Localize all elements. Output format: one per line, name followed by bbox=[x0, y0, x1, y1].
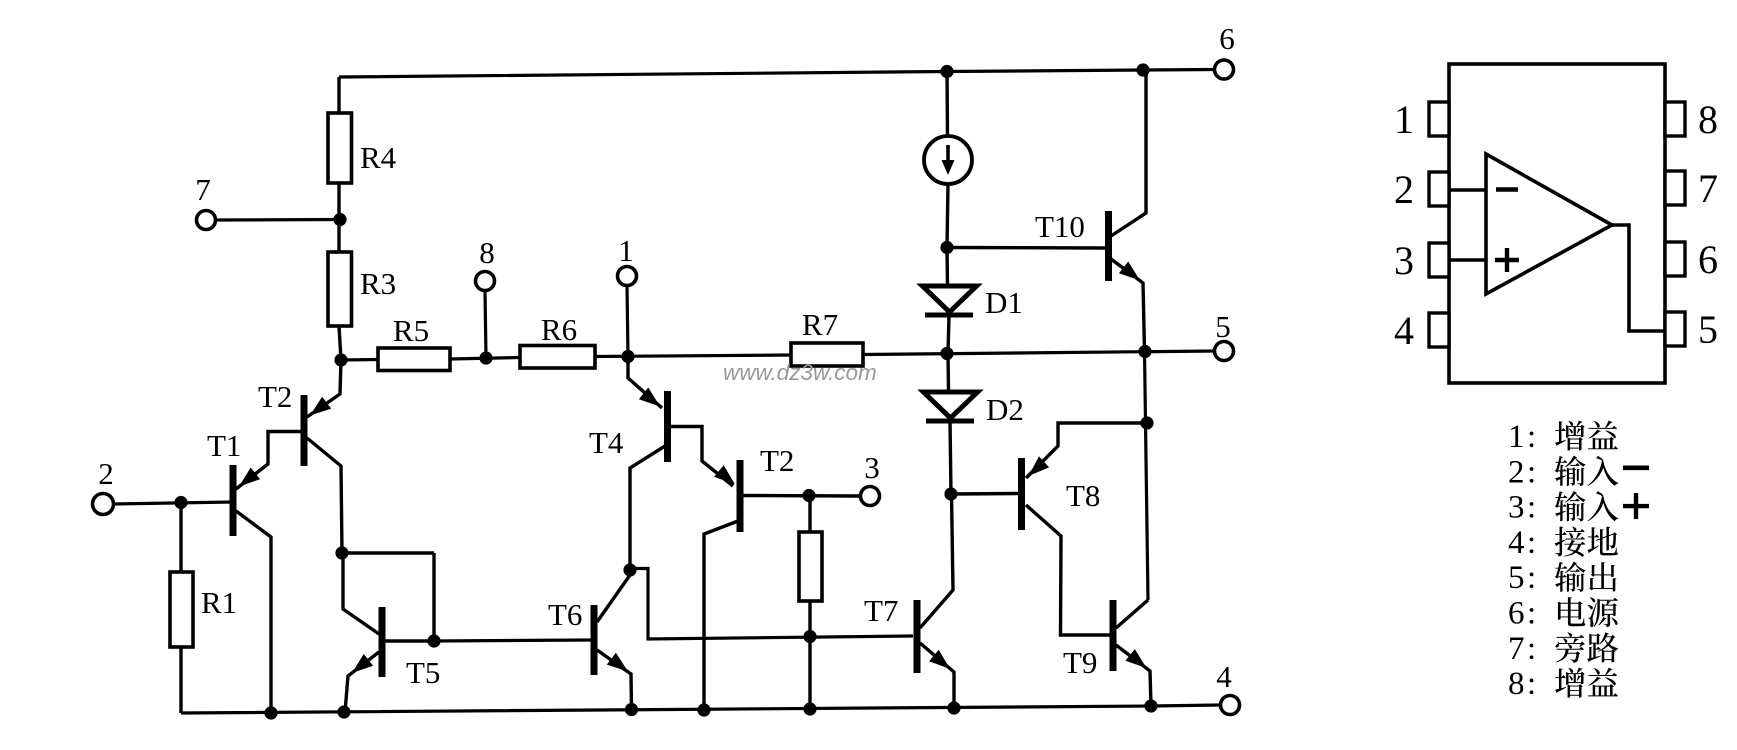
arrow T1 emitter bbox=[239, 468, 260, 487]
arrow T7 emitter bbox=[929, 650, 950, 669]
svg-text:D1: D1 bbox=[985, 285, 1023, 320]
transistor T1 bbox=[233, 432, 301, 714]
svg-text:3: 3 bbox=[1394, 238, 1414, 283]
arrow T4 emitter bbox=[639, 388, 660, 407]
wire pin 7 to node bbox=[216, 218, 339, 222]
transistor T4 bbox=[628, 357, 733, 570]
arrow T6 emitter bbox=[607, 653, 628, 672]
transistor T10 bbox=[947, 70, 1146, 351]
pin stub 8 (right) bbox=[1665, 102, 1685, 136]
terminal pin 5 bbox=[1215, 342, 1234, 361]
resistor R7 bbox=[791, 343, 863, 366]
junction node R4/R3/pin7 bbox=[333, 213, 346, 226]
junction node T5 base/T6 bbox=[427, 634, 440, 647]
transistor T2 (driver) bbox=[704, 460, 860, 710]
svg-text:T4: T4 bbox=[589, 425, 624, 460]
svg-text:R6: R6 bbox=[541, 312, 577, 347]
junction node pin8/R5/R6 bbox=[479, 351, 492, 364]
svg-text::: : bbox=[1527, 490, 1536, 526]
arrow T5 emitter bbox=[352, 654, 373, 673]
svg-text::: : bbox=[1527, 596, 1536, 632]
svg-text::: : bbox=[1527, 631, 1536, 667]
svg-text:T2: T2 bbox=[258, 379, 292, 414]
svg-text:2: 2 bbox=[98, 456, 114, 491]
wire pin 2 to T1 base bbox=[114, 502, 233, 504]
svg-text:R7: R7 bbox=[802, 307, 838, 342]
svg-text:R3: R3 bbox=[360, 266, 396, 301]
IC package DIP-8 outline bbox=[1449, 64, 1665, 383]
svg-text::: : bbox=[1527, 454, 1536, 490]
svg-text:T1: T1 bbox=[207, 428, 241, 463]
junction node pin1/R6/R7/T4 bbox=[621, 350, 634, 363]
terminal pin 1 bbox=[618, 267, 637, 286]
op-amp triangle bbox=[1486, 154, 1612, 294]
arrow T2 driver emitter bbox=[714, 465, 735, 484]
transistor T5 bbox=[342, 553, 434, 712]
wire top supply rail to pin 6 bbox=[339, 70, 1215, 78]
wire R7 to pin 5 bbox=[863, 351, 1215, 355]
wire bottom ground rail to pin 4 bbox=[181, 705, 1220, 713]
resistor R2 bbox=[799, 496, 822, 709]
legend line pin 6 bbox=[1508, 596, 1618, 632]
junction node T10/pin5 bbox=[1138, 345, 1151, 358]
terminal pin 3 bbox=[861, 487, 880, 506]
transistor T8 bbox=[951, 423, 1147, 635]
legend line pin 5 bbox=[1508, 560, 1616, 596]
legend line pin 1 bbox=[1508, 419, 1618, 455]
junction node pin2/R1/T1 bbox=[174, 496, 187, 509]
diode D1 bbox=[923, 247, 977, 353]
terminal pin 8 bbox=[476, 272, 495, 291]
svg-text:T6: T6 bbox=[548, 597, 582, 632]
svg-text:1: 1 bbox=[1394, 97, 1414, 142]
svg-text:1: 1 bbox=[1508, 419, 1525, 455]
wire non-inverting input bbox=[1449, 258, 1486, 261]
svg-text:R1: R1 bbox=[201, 585, 237, 620]
resistor R6 bbox=[520, 346, 595, 369]
junction node R2/ground rail bbox=[803, 702, 816, 715]
junction node T7 emitter/rail bbox=[947, 701, 960, 714]
svg-text:T8: T8 bbox=[1066, 478, 1100, 513]
legend line pin 2 bbox=[1508, 454, 1649, 490]
pin stub 7 (right) bbox=[1665, 171, 1685, 205]
pin stub 3 (left) bbox=[1429, 243, 1449, 277]
junction node CS/D1/T10 base bbox=[940, 241, 953, 254]
svg-text:8: 8 bbox=[479, 235, 495, 270]
terminal pin 2 bbox=[93, 494, 114, 515]
pin stub 6 (right) bbox=[1665, 242, 1685, 276]
svg-text:5: 5 bbox=[1508, 560, 1525, 596]
legend line pin 3 bbox=[1508, 490, 1649, 526]
arrow T9 emitter bbox=[1125, 649, 1146, 668]
svg-text:2: 2 bbox=[1508, 454, 1525, 490]
svg-text::: : bbox=[1527, 525, 1536, 561]
junction node T8/T9/pin5 line bbox=[1140, 416, 1153, 429]
svg-text:7: 7 bbox=[195, 172, 211, 207]
junction node R3/R5/T2 bbox=[334, 353, 347, 366]
resistor R1 bbox=[170, 503, 193, 713]
transistor T6 bbox=[594, 575, 632, 709]
diode D2 bbox=[924, 353, 978, 494]
wire node to R5 bbox=[341, 358, 378, 362]
svg-text:T10: T10 bbox=[1035, 209, 1085, 244]
junction node T4 collector/T6 bbox=[623, 563, 636, 576]
svg-text:T2: T2 bbox=[760, 443, 794, 478]
junction node T6 emitter/rail bbox=[625, 703, 638, 716]
wire R5 to R6 with node bbox=[450, 358, 520, 360]
svg-text:T9: T9 bbox=[1063, 645, 1097, 680]
legend line pin 4 bbox=[1508, 525, 1618, 561]
junction node D2/T7/T8 bbox=[944, 487, 957, 500]
svg-text:6: 6 bbox=[1698, 237, 1718, 282]
svg-text:7: 7 bbox=[1508, 631, 1525, 667]
wire pin 1 down to node bbox=[627, 286, 628, 357]
terminal pin 7 bbox=[197, 211, 216, 230]
svg-text:8: 8 bbox=[1508, 666, 1525, 702]
junction node T9 emitter/rail bbox=[1144, 699, 1157, 712]
plus sign bbox=[1495, 248, 1519, 272]
junction node T1 collector/rail bbox=[264, 706, 277, 719]
svg-text:8: 8 bbox=[1698, 97, 1718, 142]
svg-text:1: 1 bbox=[618, 233, 634, 268]
wire pin 8 down to node bbox=[485, 291, 486, 358]
wire R6 to R7 with node bbox=[595, 355, 791, 357]
resistor R4 bbox=[328, 77, 352, 220]
svg-text:T5: T5 bbox=[406, 655, 440, 690]
svg-text:3: 3 bbox=[864, 450, 880, 485]
svg-text:5: 5 bbox=[1698, 307, 1718, 352]
svg-text:4: 4 bbox=[1216, 659, 1232, 694]
transistor T7 bbox=[917, 494, 954, 708]
svg-text:R4: R4 bbox=[360, 140, 397, 175]
junction node pin3/R2 bbox=[802, 489, 815, 502]
junction node T5 emitter/rail bbox=[337, 705, 350, 718]
svg-text:D2: D2 bbox=[986, 392, 1024, 427]
arrow T10 emitter bbox=[1119, 262, 1140, 281]
transistor T9 bbox=[1113, 600, 1151, 706]
svg-text:6: 6 bbox=[1508, 596, 1525, 632]
current source bbox=[924, 71, 972, 247]
legend line pin 7 bbox=[1508, 631, 1618, 667]
pin stub 2 (left) bbox=[1429, 172, 1449, 206]
resistor R5 bbox=[378, 348, 450, 371]
junction node D1/D2/R7 bbox=[940, 347, 953, 360]
wire T5 to T6 base bbox=[434, 640, 591, 641]
transistor T2 (input pair) bbox=[304, 360, 342, 553]
svg-text:6: 6 bbox=[1219, 21, 1235, 56]
wire inverting input bbox=[1449, 188, 1486, 191]
pin stub 1 (left) bbox=[1429, 102, 1449, 136]
svg-text:7: 7 bbox=[1698, 166, 1718, 211]
wire op-amp output to pin 5 bbox=[1612, 225, 1665, 331]
wire pin5 node down to T9 collector bbox=[1145, 352, 1149, 601]
svg-text::: : bbox=[1527, 666, 1536, 702]
arrow T2 emitter bbox=[310, 397, 331, 416]
svg-text:2: 2 bbox=[1394, 167, 1414, 212]
junction node R2/T7 base line bbox=[803, 630, 816, 643]
minus sign bbox=[1496, 187, 1518, 191]
svg-text:5: 5 bbox=[1215, 309, 1231, 344]
svg-text:T7: T7 bbox=[864, 593, 898, 628]
svg-text:4: 4 bbox=[1394, 308, 1414, 353]
junction node rail/current source bbox=[940, 65, 953, 78]
svg-text:www.dz3w.com: www.dz3w.com bbox=[723, 360, 877, 385]
junction node rail/T10 collector bbox=[1136, 63, 1149, 76]
pin stub 5 (right) bbox=[1665, 312, 1685, 346]
svg-text::: : bbox=[1527, 419, 1536, 455]
pin stub 4 (left) bbox=[1429, 313, 1449, 347]
svg-text::: : bbox=[1527, 560, 1536, 596]
junction node T2 collector/T5 bbox=[335, 546, 348, 559]
svg-text:3: 3 bbox=[1508, 490, 1525, 526]
terminal pin 6 bbox=[1215, 60, 1234, 79]
legend line pin 8 bbox=[1508, 666, 1618, 702]
junction node T2 driver collector/rail bbox=[697, 703, 710, 716]
wire T4 collector to T7 base bbox=[630, 569, 913, 640]
resistor R3 bbox=[328, 220, 352, 360]
svg-text:R5: R5 bbox=[393, 313, 429, 348]
svg-text:4: 4 bbox=[1508, 525, 1525, 561]
arrow T8 emitter bbox=[1029, 456, 1050, 476]
terminal pin 4 bbox=[1221, 696, 1240, 715]
